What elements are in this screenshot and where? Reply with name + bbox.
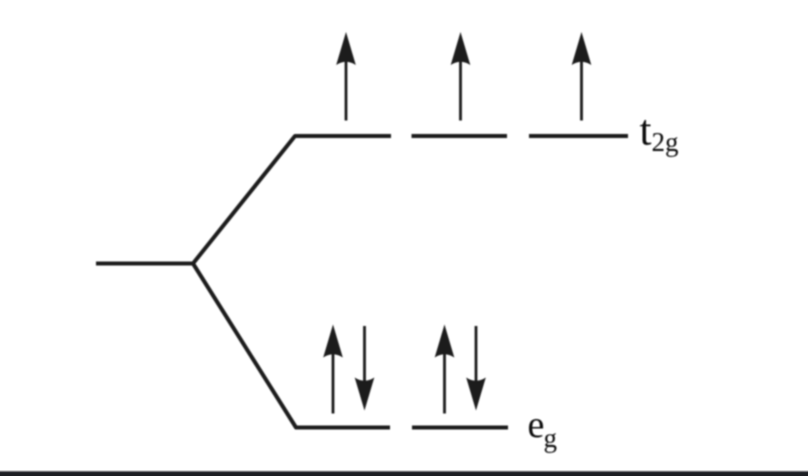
label t2g xyxy=(640,108,679,158)
eg level segment 2 xyxy=(412,426,508,430)
electron up-arrow 2 on t2g segment 2 xyxy=(451,32,471,121)
electron down-arrow on eg segment 1 xyxy=(355,326,375,411)
bottom black bar xyxy=(0,470,808,476)
electron up-arrow 1 on t2g segment 1 xyxy=(336,32,356,121)
t2g level segment 3 xyxy=(529,134,628,138)
free-ion energy level line xyxy=(96,262,193,266)
electron up-arrow on eg segment 1 xyxy=(323,325,343,414)
electron down-arrow on eg segment 2 xyxy=(466,326,486,411)
upper splitting diagonal and t2g level segment 1 xyxy=(193,136,391,264)
label eg xyxy=(528,404,558,453)
svg-text:g: g xyxy=(544,423,558,453)
svg-text:t: t xyxy=(640,108,652,155)
electron up-arrow on eg segment 2 xyxy=(435,325,455,414)
svg-text:e: e xyxy=(528,404,545,446)
electron up-arrow 3 on t2g segment 3 xyxy=(572,32,592,121)
svg-text:2g: 2g xyxy=(652,127,679,157)
t2g level segment 2 xyxy=(412,134,508,138)
lower splitting diagonal and eg level segment 1 xyxy=(193,264,390,428)
